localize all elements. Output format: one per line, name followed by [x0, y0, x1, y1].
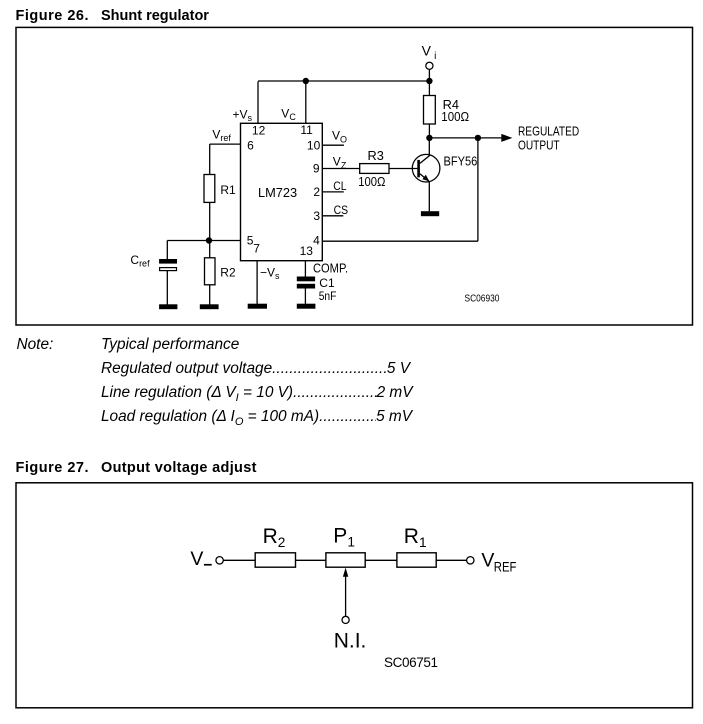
figure 27 frame	[16, 483, 693, 708]
ground Q1 emitter	[421, 211, 439, 216]
wire pin 2 stub	[322, 191, 344, 193]
svg-text:2: 2	[313, 185, 320, 199]
wire pin 4	[322, 240, 478, 242]
svg-text:6: 6	[247, 138, 254, 152]
capacitor C1 bottom plate	[297, 284, 315, 289]
terminal VREF	[467, 557, 474, 564]
wire top rail	[258, 80, 429, 82]
junction dot collector node	[426, 135, 432, 141]
wire pin 7 to ground	[256, 261, 258, 304]
svg-text:CL: CL	[333, 181, 346, 194]
figure 26 caption	[16, 8, 209, 24]
wire pin 6	[210, 143, 241, 145]
wire pin 12 to top rail	[257, 81, 259, 123]
wire Cref to ground	[166, 271, 168, 305]
ground R2	[200, 304, 219, 309]
svg-text:V: V	[190, 548, 203, 570]
wire Vi terminal down	[428, 69, 430, 81]
ground pin 7	[248, 304, 267, 309]
op-amp U1 LM723 body	[241, 123, 323, 260]
svg-text:R2: R2	[263, 525, 286, 550]
wire pin 3 stub	[322, 215, 343, 217]
svg-text:11: 11	[300, 123, 313, 137]
capacitor C1 top plate	[297, 277, 315, 282]
wire R2 to ground	[209, 285, 211, 305]
svg-text:5nF: 5nF	[319, 290, 337, 303]
svg-text:VC: VC	[281, 106, 296, 122]
wire down to Cref	[166, 241, 168, 260]
emitter wire from transistor	[420, 174, 429, 211]
resistor R1 fig27	[397, 553, 436, 567]
svg-text:10: 10	[307, 138, 321, 152]
figure 26 frame	[16, 27, 693, 325]
svg-text:BFY56: BFY56	[444, 154, 478, 169]
svg-text:9: 9	[313, 161, 320, 175]
svg-text:100Ω: 100Ω	[358, 174, 385, 189]
svg-text:4: 4	[313, 233, 320, 247]
svg-text:Vi: Vi	[422, 43, 437, 62]
svg-text:OUTPUT: OUTPUT	[518, 139, 560, 153]
resistor R3	[360, 164, 389, 174]
collector wire into transistor	[420, 138, 429, 164]
svg-text:REF: REF	[494, 560, 517, 575]
wire output node down to pin 4 row	[477, 138, 479, 241]
svg-text:R2: R2	[220, 265, 236, 279]
resistor R4	[424, 96, 436, 125]
wire pin 9 to R3	[322, 168, 359, 170]
note row 2	[101, 360, 410, 378]
label V- minus	[204, 564, 212, 566]
svg-text:SC06751: SC06751	[384, 655, 438, 670]
svg-text:7: 7	[253, 241, 260, 255]
wire pin 11 to top rail	[305, 81, 307, 123]
svg-text:+Vs: +Vs	[233, 108, 253, 124]
svg-text:13: 13	[300, 244, 314, 258]
note row 1	[17, 336, 54, 354]
svg-text:VO: VO	[332, 129, 347, 145]
note row 3	[101, 384, 413, 404]
svg-text:SC06930: SC06930	[465, 293, 500, 304]
junction dot output branch	[475, 135, 481, 141]
svg-text:3: 3	[313, 209, 320, 223]
svg-text:12: 12	[252, 123, 266, 137]
junction dot Vi/top rail	[426, 78, 432, 84]
wire output rail	[429, 137, 502, 139]
svg-text:−Vs: −Vs	[260, 265, 280, 281]
terminal V-	[216, 557, 223, 564]
capacitor Cref top plate	[159, 259, 177, 264]
wire Vref node to R1	[209, 144, 211, 174]
svg-text:Cref: Cref	[130, 253, 150, 269]
svg-text:COMP.: COMP.	[313, 261, 348, 276]
wire top rail to R4	[428, 81, 430, 96]
svg-text:100Ω: 100Ω	[441, 109, 469, 124]
ground Cref	[159, 304, 177, 309]
svg-text:Vref: Vref	[212, 127, 231, 143]
wire R1 to node E	[209, 202, 211, 240]
wire N.I. up to P1	[345, 575, 347, 616]
transistor Q1 body	[412, 154, 440, 182]
arrow P1 wiper	[343, 568, 348, 577]
svg-text:R1: R1	[220, 183, 236, 197]
wire pin 13 to C1	[304, 261, 306, 277]
transistor Q1 base bar	[417, 160, 420, 177]
junction dot pin11/top rail	[303, 78, 309, 84]
wire R4 to collector node	[428, 124, 430, 138]
potentiometer P1	[326, 553, 365, 567]
transistor Q1 emitter arrow	[422, 175, 429, 182]
junction dot node E	[206, 237, 212, 243]
svg-text:CS: CS	[334, 204, 348, 217]
note row 4	[101, 408, 412, 428]
figure 27 caption	[16, 460, 257, 476]
arrow regulated output	[501, 134, 512, 142]
ground C1	[297, 304, 316, 309]
resistor R2 fig27	[255, 553, 295, 567]
wire node E to R2	[209, 241, 211, 258]
svg-text:C1: C1	[319, 276, 335, 290]
terminal Vi	[426, 62, 433, 69]
wire C1 to ground	[304, 288, 306, 304]
wire main rail fig27	[223, 559, 466, 561]
resistor R1	[204, 175, 215, 203]
svg-text:N.I.: N.I.	[334, 630, 367, 653]
wire pin 10 stub	[322, 144, 344, 146]
terminal N.I.	[342, 616, 349, 623]
wire node E to Cref branch	[167, 240, 209, 242]
svg-text:V: V	[481, 550, 494, 572]
svg-text:P1: P1	[333, 524, 355, 549]
capacitor Cref bottom plate	[160, 268, 177, 271]
svg-text:R1: R1	[404, 525, 427, 550]
svg-text:LM723: LM723	[258, 185, 297, 200]
svg-text:R3: R3	[368, 148, 384, 163]
resistor R2	[205, 258, 216, 285]
svg-text:REGULATED: REGULATED	[518, 125, 579, 139]
svg-text:VZ: VZ	[333, 154, 347, 170]
wire pin 5	[209, 240, 241, 242]
wire R3 to base	[389, 168, 417, 170]
